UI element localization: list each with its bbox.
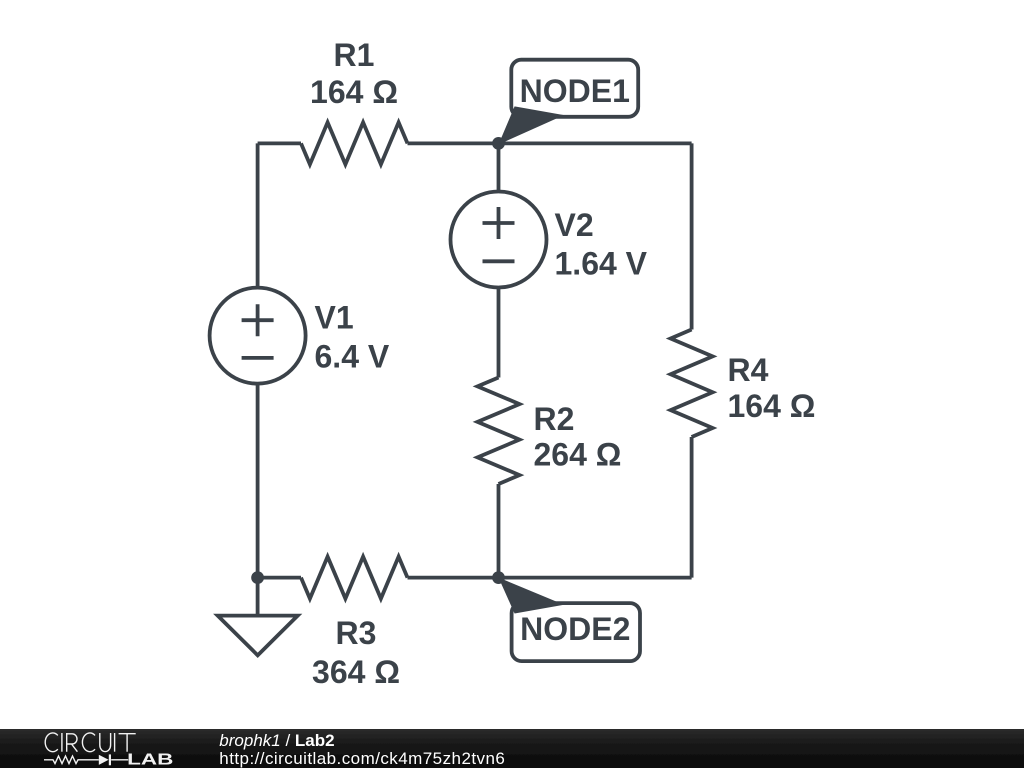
svg-text:R1: R1: [334, 37, 375, 73]
svg-text:6.4 V: 6.4 V: [315, 339, 390, 375]
svg-text:164 Ω: 164 Ω: [310, 74, 398, 110]
svg-text:1.64 V: 1.64 V: [555, 246, 648, 282]
svg-text:V1: V1: [315, 300, 354, 336]
svg-text:264 Ω: 264 Ω: [534, 437, 622, 473]
svg-text:R2: R2: [534, 401, 575, 437]
svg-text:164 Ω: 164 Ω: [728, 388, 816, 424]
svg-text:R3: R3: [336, 615, 377, 651]
svg-text:V2: V2: [555, 207, 594, 243]
svg-text:NODE2: NODE2: [520, 611, 630, 647]
svg-text:brophk1 / Lab2: brophk1 / Lab2: [219, 731, 334, 750]
svg-text:LAB: LAB: [127, 751, 173, 768]
svg-text:NODE1: NODE1: [520, 73, 630, 109]
svg-text:R4: R4: [728, 352, 769, 388]
svg-text:http://circuitlab.com/ck4m75zh: http://circuitlab.com/ck4m75zh2tvn6: [219, 749, 505, 768]
svg-text:364 Ω: 364 Ω: [312, 654, 400, 690]
